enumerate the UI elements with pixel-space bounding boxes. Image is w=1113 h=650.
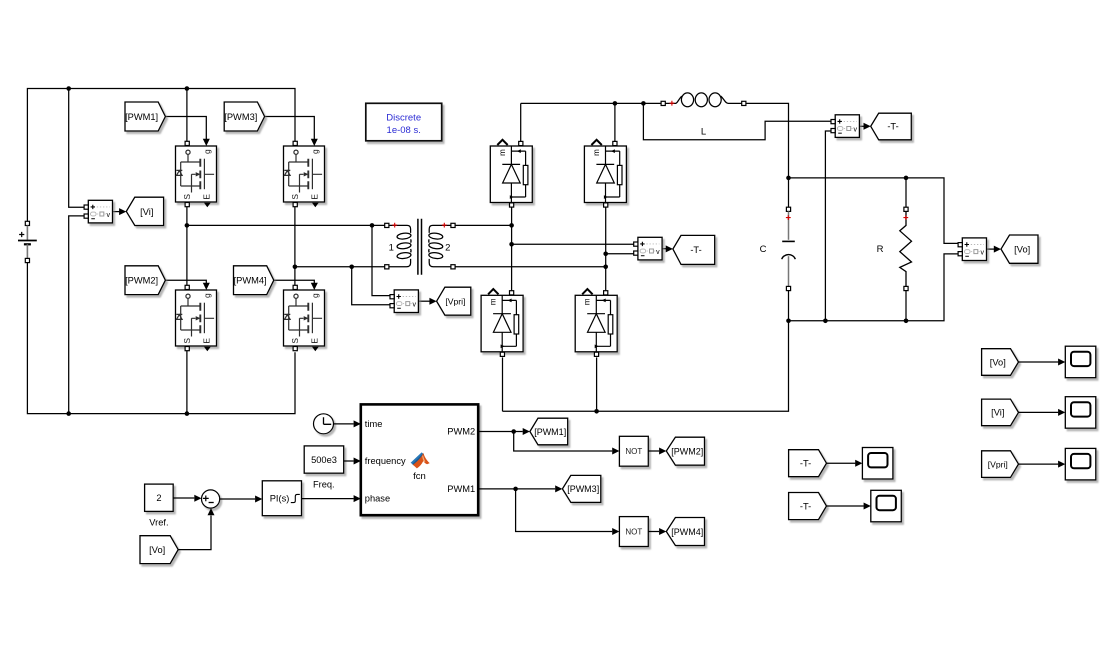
svg-text:1e-08 s.: 1e-08 s. (387, 125, 421, 136)
from tag PWM3 (224, 102, 264, 131)
wire: top DC bus rail (27, 89, 295, 222)
goto tag PWM1 (530, 418, 568, 445)
wire: bridge rail B to transformer primary bottom (295, 266, 385, 268)
voltage measurement inductor -T- (831, 115, 859, 138)
wire: T2 meter to T goto (662, 248, 666, 250)
wire: Vpri minus branch (352, 267, 392, 305)
wire: battery bottom to bottom DC rail (27, 263, 295, 414)
DC voltage source battery (18, 221, 37, 262)
svg-text:2: 2 (445, 243, 450, 254)
wire: Vpri meter to Vpri goto (418, 300, 430, 302)
scope Vo (1065, 346, 1096, 378)
svg-text:[PWM3]: [PWM3] (567, 484, 599, 494)
svg-text:PWM2: PWM2 (447, 427, 475, 437)
wire: clock to fcn time (334, 423, 354, 425)
svg-text:[PWM4]: [PWM4] (671, 527, 703, 537)
diode D3 (481, 289, 523, 356)
from tag PWM4 (234, 266, 274, 295)
resistor R (877, 207, 912, 290)
wire: NOT2 to PWM4 goto (648, 531, 659, 533)
MOSFET Q2 (176, 285, 217, 351)
wire: M3 source to M4 drain (294, 206, 296, 287)
svg-text:[PWM4]: [PWM4] (234, 276, 267, 286)
voltage measurement Vpri (390, 290, 418, 313)
wire: output bottom rail (789, 254, 961, 321)
svg-text:time: time (365, 419, 383, 429)
voltage measurement Vo (958, 238, 986, 261)
svg-text:NOT: NOT (625, 447, 642, 456)
goto tag Vo (1001, 235, 1038, 263)
wire: capacitor bottom lead (788, 291, 790, 321)
constant block Vref 2 (145, 484, 174, 528)
sum block (202, 490, 220, 508)
MOSFET Q1 (176, 141, 217, 207)
MATLAB function block fcn (361, 404, 478, 515)
svg-text:Discrete: Discrete (386, 113, 421, 124)
wire: D2 cathode riser (614, 103, 616, 141)
wire: M2 source to bottom rail (186, 351, 188, 414)
powergui block Discrete 1e-08 s. (366, 103, 442, 141)
svg-text:Vref.: Vref. (149, 518, 168, 528)
junction dots on power wiring (66, 86, 71, 91)
wire: D3 anode to secondary bottom rail (502, 357, 504, 411)
MATLAB logo (411, 452, 430, 468)
MOSFET Q3 (284, 141, 325, 207)
goto tag T secondary (673, 235, 715, 264)
wire: M1 drain from top rail (186, 89, 188, 142)
svg-text:[PWM3]: [PWM3] (224, 112, 257, 122)
svg-text:[Vo]: [Vo] (990, 357, 1006, 367)
wire: resistor bottom lead (905, 291, 907, 321)
arrowheads into MOSFET gates (203, 139, 210, 146)
wire: Vpri from-tag to scope (1019, 463, 1059, 465)
wire: L meter to T goto (859, 125, 864, 127)
from tag T1 (789, 450, 827, 477)
wire: Vo feedback to sum (178, 516, 211, 550)
wire: sum to PI (220, 498, 255, 500)
inductor L (661, 93, 746, 138)
wire: D2 anode to D4 cathode (605, 207, 607, 290)
wire: PWM1 from-tag to M1 gate (165, 117, 206, 140)
scope T2 (871, 490, 902, 522)
voltage measurement secondary -T- (634, 237, 662, 260)
scope Vi (1065, 397, 1096, 429)
wire: Vref to sum (173, 497, 194, 499)
svg-text:Freq.: Freq. (313, 479, 335, 489)
svg-text:[PWM2]: [PWM2] (125, 276, 158, 286)
wire: T2 meter plus branch (512, 243, 636, 245)
diode D4 (575, 289, 617, 356)
wire: PWM4 from-tag to M4 gate (274, 280, 315, 283)
wire: diode top rail to inductor (521, 102, 661, 104)
wire: D1 anode to D3 cathode (511, 207, 513, 290)
scope Vpri (1065, 448, 1096, 480)
wire: transformer secondary bottom to rectifier node (455, 266, 606, 268)
wire: D4 anode to secondary bottom rail (596, 357, 598, 411)
from tag T2 (789, 493, 827, 520)
svg-text:[Vi]: [Vi] (991, 408, 1004, 418)
svg-text:2: 2 (156, 493, 161, 503)
svg-text:frequency: frequency (365, 456, 406, 466)
wire: NOT1 to PWM2 goto (648, 450, 659, 452)
goto tag Vi (126, 197, 163, 225)
wire: Vpri plus branch (372, 225, 392, 295)
from tag Vo scope (982, 349, 1019, 376)
svg-text:1: 1 (389, 243, 394, 254)
wire: Vi meter plus branch (69, 89, 86, 208)
svg-text:PWM1: PWM1 (447, 484, 475, 494)
linear transformer (385, 219, 455, 275)
wire: PI to fcn phase (302, 498, 354, 500)
from tag PWM2 (125, 266, 165, 295)
wire: inductor meter plus loop (643, 103, 833, 139)
wire: D1 cathode to diode top rail (520, 103, 522, 141)
goto tag T inductor (871, 113, 912, 140)
svg-text:[Vpri]: [Vpri] (988, 459, 1008, 469)
wire: Vi from-tag to scope (1019, 411, 1059, 413)
svg-text:R: R (877, 244, 884, 255)
svg-text:L: L (701, 127, 706, 138)
wire: Vo meter to Vo goto (987, 248, 995, 250)
wire: fcn PWM2 to PWM1 goto (478, 431, 523, 433)
from tag Vo feedback (140, 536, 178, 564)
wire: inductor meter minus branch (825, 131, 833, 321)
diode D1 (490, 140, 532, 207)
NOT block 2 (619, 517, 648, 547)
svg-text:-T-: -T- (690, 245, 701, 255)
svg-text:PI(s): PI(s) (270, 494, 290, 504)
NOT block 1 (619, 436, 648, 466)
svg-text:500e3: 500e3 (311, 455, 337, 465)
svg-text:NOT: NOT (625, 528, 642, 537)
wire: Vi meter minus branch (69, 216, 86, 414)
svg-text:C: C (760, 244, 767, 255)
wire: PWM1 branch to NOT2 (516, 489, 613, 532)
goto tag PWM2 (666, 437, 704, 465)
arrowheads into goto tags (119, 208, 126, 215)
from tag PWM1 (125, 102, 165, 131)
wire: fcn PWM1 to PWM3 goto (478, 488, 555, 490)
wire: PWM3 from-tag to M3 gate (265, 117, 315, 140)
wire: PWM2 from-tag to M2 gate (165, 280, 206, 283)
wire: inductor output to cap node (746, 103, 789, 177)
goto tag PWM3 (562, 475, 600, 502)
wire: T1 from-tag to scope (827, 462, 856, 464)
wire: T2 from-tag to scope (827, 505, 864, 507)
svg-text:-T-: -T- (887, 122, 898, 132)
wire: output top rail (789, 178, 961, 244)
wire: 500e3 to fcn frequency (344, 460, 354, 462)
svg-text:-T-: -T- (800, 501, 811, 511)
wire: Vi meter to Vi goto (112, 211, 120, 213)
scope T1 (862, 448, 893, 480)
wire: secondary bottom rail (503, 321, 789, 412)
diode D2 (584, 140, 626, 207)
svg-text:[PWM1]: [PWM1] (125, 112, 158, 122)
voltage measurement Vi (84, 200, 112, 223)
svg-text:[Vo]: [Vo] (149, 545, 165, 555)
svg-text:-T-: -T- (800, 459, 811, 469)
goto tag PWM4 (666, 518, 704, 546)
svg-text:[Vpri]: [Vpri] (445, 297, 465, 307)
svg-text:phase: phase (365, 494, 390, 504)
capacitor C (760, 207, 796, 290)
constant block 500e3 (304, 446, 344, 490)
goto tag Vpri (437, 287, 471, 315)
clock block (314, 414, 334, 434)
svg-text:fcn: fcn (413, 471, 426, 482)
svg-text:[PWM2]: [PWM2] (671, 446, 703, 456)
wire: T2 meter minus branch (606, 253, 636, 255)
wire: capacitor top lead (788, 178, 790, 207)
wire: bridge rail A to transformer primary top (187, 224, 385, 226)
svg-text:[Vi]: [Vi] (140, 207, 153, 217)
from tag Vpri scope (982, 451, 1019, 478)
wire: Vo from-tag to scope (1019, 361, 1059, 363)
wire: PWM2 branch to NOT1 (514, 432, 613, 452)
PI controller block (262, 481, 301, 516)
transformer polarity marks (392, 223, 446, 228)
wire: transformer secondary top to rectifier node (455, 224, 511, 226)
svg-text:[PWM1]: [PWM1] (534, 427, 566, 437)
wire: M1 source to M2 drain (186, 206, 188, 287)
svg-text:[Vo]: [Vo] (1014, 244, 1030, 254)
MOSFET Q4 (284, 285, 325, 351)
from tag Vi scope (982, 399, 1019, 426)
wire: resistor top lead (905, 178, 907, 207)
